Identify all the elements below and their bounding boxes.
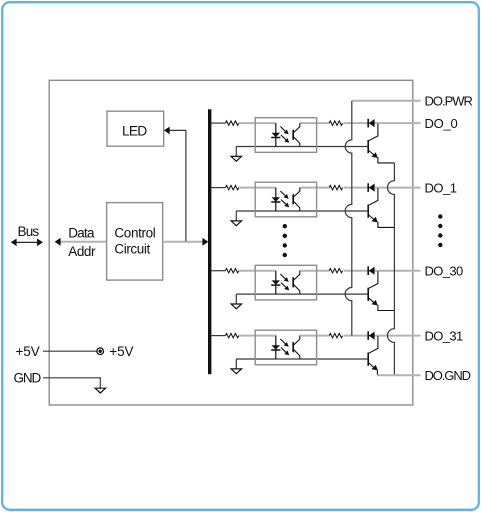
svg-text:+5V: +5V — [109, 344, 133, 359]
resistor input R3a — [225, 333, 238, 337]
resistor input R0a — [225, 121, 238, 125]
svg-text:DO.GND: DO.GND — [425, 368, 471, 383]
opto light arrows DO_31 — [280, 339, 289, 355]
wire +5V — [43, 350, 97, 352]
opto LED diode DO_0 — [271, 123, 280, 146]
wire resistor to optocoupler DO_1 — [239, 187, 276, 189]
wire bus bar to resistor DO_30 — [211, 270, 225, 272]
optocoupler U3 box — [255, 182, 316, 217]
wire phototransistor collector output DO_31 — [300, 335, 329, 337]
opto LED diode DO_31 — [271, 336, 280, 359]
opto LED diode DO_1 — [271, 188, 280, 211]
svg-text:DO_30: DO_30 — [425, 263, 464, 278]
wire emitter to DO.GND DO_31 — [376, 370, 378, 376]
wire phototransistor collector output DO_30 — [300, 270, 329, 272]
wire DO.GND line — [377, 374, 420, 376]
wire resistor to optocoupler DO_30 — [239, 270, 276, 272]
card boundary box — [49, 80, 413, 405]
LED indicator box — [107, 111, 164, 146]
wire diode/collector link DO_31 — [369, 336, 378, 353]
wire common emitter rail with hops — [387, 163, 394, 375]
ellipsis middle channels — [283, 224, 287, 257]
clamp diode D3 DO_30 — [368, 266, 374, 275]
wire DO.PWR vertical rail with hops — [345, 101, 352, 336]
node +5V terminal symbol — [97, 348, 104, 355]
wire resistor to optocoupler DO_31 — [239, 335, 276, 337]
wire output line DO_31 — [344, 335, 421, 337]
transistor Q3 DO_30 — [368, 288, 378, 306]
wire DO.PWR line — [352, 100, 421, 102]
clamp diode D4 DO_31 — [368, 331, 374, 340]
ground opto DO_1 — [235, 211, 237, 221]
transistor Q1 DO_0 — [368, 140, 378, 158]
svg-text:Addr: Addr — [68, 244, 96, 259]
opto phototransistor DO_31 — [293, 336, 300, 359]
ground opto DO_0 — [235, 147, 237, 157]
transistor Q4 DO_31 — [368, 353, 378, 371]
control circuit U1 — [107, 203, 163, 281]
wire bus bar to resistor DO_0 — [211, 122, 225, 124]
wire bus bar to resistor DO_1 — [211, 187, 225, 189]
wire emitter elbow DO_1 — [378, 222, 395, 228]
resistor output R2b — [329, 269, 342, 273]
resistor input R1a — [225, 185, 238, 189]
svg-text:DO_1: DO_1 — [425, 180, 457, 195]
internal bus bar — [208, 109, 211, 374]
svg-text:DO_31: DO_31 — [425, 328, 464, 343]
wire diode/collector link DO_1 — [369, 188, 378, 205]
clamp diode D1 DO_0 — [368, 119, 374, 128]
wire Control Circuit to internal bus bar — [163, 238, 209, 246]
optocoupler U4 box — [255, 265, 316, 300]
opto light arrows DO_30 — [280, 274, 289, 290]
wire Control Circuit to LED — [168, 130, 186, 241]
wire output line DO_0 — [344, 122, 421, 124]
svg-text:GND: GND — [14, 371, 42, 386]
svg-text:Circuit: Circuit — [114, 242, 150, 257]
ground symbol GND — [95, 388, 105, 393]
wire LED cathode / emitter base wire DO_0 — [236, 146, 367, 148]
wire bus bar to resistor DO_31 — [211, 335, 225, 337]
svg-text:+5V: +5V — [16, 344, 40, 359]
wire LED cathode / emitter base wire DO_30 — [236, 293, 367, 295]
optocoupler U2 box — [255, 118, 316, 153]
opto phototransistor DO_0 — [293, 123, 300, 146]
svg-text:Data: Data — [68, 226, 95, 241]
wire output line DO_1 — [344, 187, 421, 189]
wire resistor to optocoupler DO_0 — [239, 122, 276, 124]
wire GND — [43, 378, 100, 388]
wire LED cathode / emitter base wire DO_1 — [236, 210, 367, 212]
wire Data/Addr bus into Control Circuit — [55, 238, 107, 246]
wire emitter elbow DO_30 — [378, 305, 395, 311]
svg-text:DO.PWR: DO.PWR — [425, 93, 473, 108]
opto light arrows DO_1 — [280, 191, 289, 207]
wire phototransistor collector output DO_1 — [300, 187, 329, 189]
resistor input R2a — [225, 269, 238, 273]
svg-text:Control: Control — [114, 225, 155, 240]
wire emitter elbow DO_0 — [378, 157, 395, 163]
ground opto DO_30 — [235, 294, 237, 304]
resistor output R0b — [329, 121, 342, 125]
svg-text:Bus: Bus — [18, 224, 40, 239]
wire LED cathode / emitter base wire DO_31 — [236, 358, 367, 360]
opto phototransistor DO_30 — [293, 271, 300, 294]
svg-text:DO_0: DO_0 — [425, 116, 458, 131]
svg-text:LED: LED — [122, 124, 147, 139]
ground opto DO_31 — [235, 359, 237, 369]
wire phototransistor collector output DO_0 — [300, 122, 329, 124]
wire output line DO_30 — [344, 270, 421, 272]
opto LED diode DO_30 — [271, 271, 280, 294]
clamp diode D2 DO_1 — [368, 183, 374, 192]
wire diode/collector link DO_0 — [369, 124, 378, 141]
optocoupler U5 box — [255, 330, 316, 365]
Bus bidirectional arrow — [11, 239, 43, 247]
resistor output R1b — [329, 185, 342, 189]
opto phototransistor DO_1 — [293, 188, 300, 211]
opto light arrows DO_0 — [280, 127, 289, 143]
transistor Q2 DO_1 — [368, 205, 378, 223]
ellipsis right labels — [438, 214, 442, 247]
wire diode/collector link DO_30 — [369, 271, 378, 288]
resistor output R3b — [329, 333, 342, 337]
